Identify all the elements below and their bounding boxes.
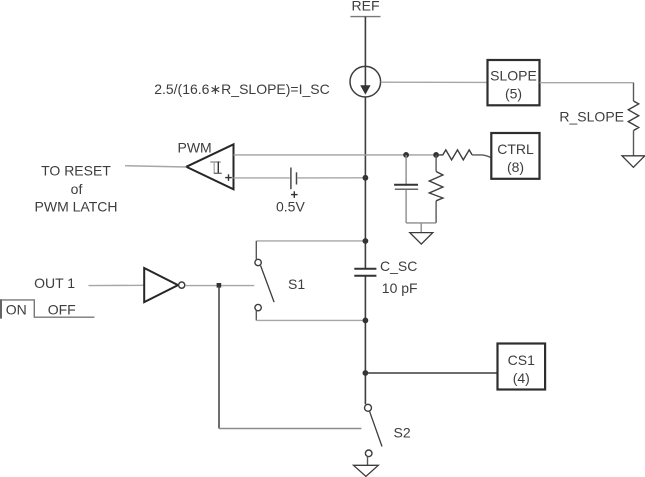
wire filter resistor to bottom bar	[435, 201, 437, 223]
S1 top contact	[255, 259, 261, 265]
switch S1	[255, 241, 365, 321]
ON/OFF waveform symbol	[1, 299, 94, 318]
pulse symbol inside comparator	[210, 162, 221, 174]
label TO RESET of PWM LATCH	[35, 163, 118, 215]
svg-text:OUT 1: OUT 1	[34, 275, 75, 291]
svg-text:REF: REF	[352, 0, 380, 14]
ground (CTRL filter)	[410, 233, 433, 245]
wire buffer output	[185, 285, 254, 287]
resistor R_SLOPE	[628, 101, 638, 131]
box CTRL (8)	[491, 133, 539, 179]
svg-text:C_SC: C_SC	[380, 258, 417, 274]
node junction dot battery/rail	[363, 175, 369, 181]
op-amp PWM comparator	[178, 140, 234, 190]
plus input label	[225, 174, 232, 181]
wire R_SLOPE to ground	[633, 131, 635, 156]
node junction dot S1 bottom	[363, 318, 369, 324]
wire to filter resistor	[435, 155, 437, 172]
wire comparator output to PWM latch	[125, 166, 186, 167]
switch S2	[365, 404, 383, 456]
svg-text:of: of	[71, 181, 83, 197]
battery 0.5V	[291, 168, 297, 190]
wire bar to ground stub	[420, 223, 422, 233]
wire filter cap to bottom bar	[405, 190, 407, 223]
svg-text:TO RESET: TO RESET	[41, 163, 111, 179]
S2 top contact	[365, 404, 372, 411]
ground (R_SLOPE)	[622, 156, 645, 168]
svg-text:SLOPE: SLOPE	[490, 68, 537, 84]
node junction dot S1 top	[363, 238, 369, 244]
S2 bottom contact	[365, 450, 372, 457]
wire OUT 1 to buffer	[88, 284, 144, 286]
wire main vertical rail (REF to S2)	[364, 17, 366, 405]
box SLOPE (5)	[488, 60, 540, 105]
capacitor C_SC	[354, 269, 376, 276]
svg-text:OFF: OFF	[48, 301, 76, 317]
node junction dot filter resistor	[433, 152, 439, 158]
box CS1 (4)	[498, 344, 546, 390]
svg-text:10 pF: 10 pF	[382, 280, 418, 296]
svg-text:S1: S1	[288, 276, 305, 292]
node junction dot filter cap	[403, 152, 409, 158]
wire S2 control horizontal	[219, 428, 361, 430]
resistor (CTRL filter, vertical)	[429, 172, 443, 201]
svg-text:S2: S2	[394, 425, 411, 441]
node junction dot CS1	[363, 370, 369, 376]
wire buffer output down to S2 control	[218, 286, 220, 429]
buffer (inverting driver)	[144, 268, 185, 302]
wire S2 to ground	[367, 457, 369, 466]
ground (S2)	[354, 465, 379, 476]
wire comparator inverting input line	[234, 154, 437, 156]
S1 blade	[261, 266, 275, 303]
svg-text:PWM LATCH: PWM LATCH	[35, 198, 118, 214]
wire battery to rail	[298, 177, 366, 179]
wire current source to SLOPE box	[381, 81, 488, 83]
svg-text:R_SLOPE: R_SLOPE	[559, 108, 624, 124]
wire S1 bottom rail	[256, 319, 365, 321]
svg-text:CTRL: CTRL	[497, 141, 534, 157]
resistor (to CTRL pin, horizontal)	[439, 150, 472, 160]
S2 blade	[370, 411, 383, 446]
node REF terminal bar	[350, 16, 380, 18]
wire resistor to CTRL box	[472, 155, 491, 158]
wire S1 top rail	[256, 240, 365, 242]
svg-text:2.5/(16.6∗R_SLOPE)=I_SC: 2.5/(16.6∗R_SLOPE)=I_SC	[154, 81, 330, 97]
current source I_SC	[350, 66, 381, 97]
svg-text:(5): (5)	[505, 86, 522, 102]
svg-text:0.5V: 0.5V	[276, 198, 305, 214]
svg-text:ON: ON	[6, 301, 27, 317]
wire to filter capacitor	[405, 155, 407, 184]
node junction dot buffer output	[217, 283, 222, 288]
wire filter bottom bar	[406, 222, 436, 224]
S1 bottom contact	[255, 304, 261, 310]
svg-text:(8): (8)	[507, 159, 524, 175]
wire SLOPE box to R_SLOPE	[540, 83, 634, 101]
wire rail to CS1 box	[365, 372, 497, 374]
svg-text:CS1: CS1	[508, 352, 535, 368]
label battery polarity +	[291, 191, 298, 198]
svg-text:PWM: PWM	[178, 140, 212, 156]
capacitor (CTRL filter)	[394, 185, 418, 190]
wire comparator + input to battery	[234, 177, 290, 179]
svg-text:(4): (4)	[513, 370, 530, 386]
